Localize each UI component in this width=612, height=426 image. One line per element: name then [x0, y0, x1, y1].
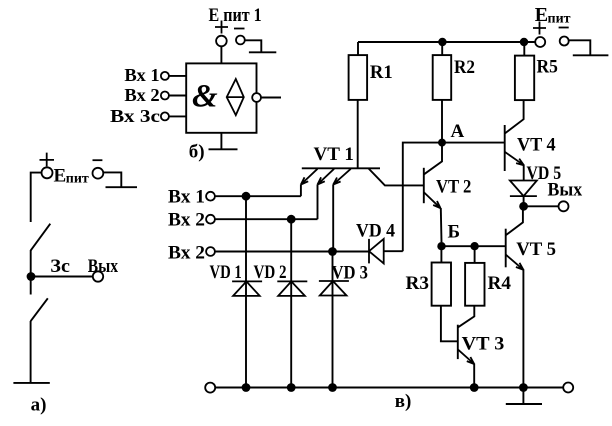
plus sign (a)	[40, 153, 55, 167]
wire R4 top lead	[474, 246, 476, 263]
wire output node to terminal	[524, 205, 559, 207]
svg-text:Е: Е	[54, 165, 67, 186]
wire node down (a)	[30, 277, 32, 295]
junction VD1 top	[242, 192, 251, 201]
plus sign (b)	[215, 21, 228, 34]
junction VD1 bottom	[242, 383, 251, 392]
svg-text:VT 5: VT 5	[516, 239, 556, 260]
VT1 emitter 3	[333, 169, 351, 185]
junction VD2 bottom	[287, 383, 296, 392]
input wire 3 (b)	[169, 115, 186, 117]
junction VT3 emitter	[470, 383, 479, 392]
ground bar (v)	[506, 403, 542, 405]
node junction (a)	[27, 272, 36, 281]
wire emitter1 down	[300, 185, 302, 197]
output node junction (v)	[519, 202, 528, 211]
terminal - circle (a)	[93, 168, 104, 179]
rail right terminal circle	[563, 383, 573, 393]
svg-text:б): б)	[189, 142, 205, 163]
wire supply to gate box	[220, 46, 222, 63]
svg-text:Вх 1: Вх 1	[124, 65, 159, 85]
svg-text:Зс: Зс	[50, 256, 70, 277]
diode VD2	[277, 219, 307, 387]
junction R4 top	[470, 242, 478, 250]
input wire Vh2 (v)	[215, 218, 318, 220]
transistor VT3	[458, 306, 475, 364]
wire R3 bottom to VT3 base	[441, 306, 458, 342]
terminal - circle (b)	[236, 36, 245, 45]
wire output node to VT5 collector	[506, 206, 523, 235]
svg-text:A: A	[451, 121, 465, 142]
input circle Vh1 (v)	[206, 192, 215, 201]
wire R2 bottom to node A	[441, 100, 443, 143]
svg-text:пит: пит	[66, 172, 89, 187]
chassis step symbol (v)	[569, 40, 609, 55]
input circle Vh2 (v)	[206, 215, 215, 224]
minus sign (a)	[93, 159, 103, 161]
minus sign (v)	[559, 27, 569, 29]
junction R5 top	[520, 38, 528, 46]
switch contact 3 blade (upper)	[31, 224, 51, 251]
input wire Vh2b to VD4	[215, 251, 369, 253]
svg-text:VT 1: VT 1	[314, 144, 354, 165]
transistor VT4 bar	[504, 125, 506, 171]
junction VD3 top	[328, 247, 337, 256]
wire from + terminal down (a)	[31, 173, 42, 222]
gate ground lead	[220, 133, 222, 150]
wire R2 top lead	[441, 42, 443, 55]
terminal + circle (b)	[216, 36, 227, 47]
svg-text:в): в)	[395, 391, 412, 412]
wire VT2 emitter to node B	[440, 208, 443, 242]
svg-text:VD 2: VD 2	[254, 262, 287, 283]
resistor R5	[515, 56, 534, 101]
terminal - circle (v)	[560, 37, 569, 46]
ground lead (v)	[522, 388, 524, 405]
wire to ground (a)	[30, 321, 32, 383]
wire emitter2 down	[317, 185, 319, 220]
resistor R4	[465, 263, 484, 306]
svg-text:а): а)	[31, 395, 47, 416]
gate box U1	[186, 63, 256, 132]
switch blade (lower)	[31, 298, 48, 321]
svg-text:пит: пит	[548, 11, 571, 26]
wire emitter3 down	[332, 185, 334, 252]
svg-text:Вх 2: Вх 2	[168, 209, 205, 230]
resistor R2	[433, 55, 452, 100]
svg-text:R1: R1	[370, 62, 393, 83]
minus sign (b)	[234, 28, 245, 30]
wire node A left and down to VD4	[403, 143, 442, 252]
svg-text:R5: R5	[537, 57, 558, 78]
resistor R3	[432, 263, 451, 306]
svg-text:R4: R4	[488, 273, 512, 294]
transistor VT1 base bar	[302, 167, 380, 169]
VT1 collector to VT2 base	[369, 169, 424, 186]
VT1 emitter 1	[301, 169, 318, 185]
diode VD4	[369, 239, 403, 264]
junction VD2 top	[287, 215, 296, 224]
gate ground bar	[209, 148, 238, 150]
chassis step symbol (b)	[245, 40, 276, 52]
wire node B to R3	[440, 246, 442, 262]
diode VD1	[232, 196, 262, 387]
node A junction	[438, 139, 446, 147]
svg-text:R3: R3	[406, 273, 430, 294]
VT1 emitter 2	[318, 169, 335, 185]
input wire Vh1 (v)	[215, 195, 301, 197]
wire VD5 to output node	[523, 196, 525, 206]
wire node B to VT5 base	[442, 245, 506, 247]
junction R2 top	[438, 38, 446, 46]
chassis step symbol (a)	[103, 172, 137, 187]
VT5 emitter	[506, 255, 523, 270]
gate output wire	[261, 97, 281, 99]
wire VT3 emitter to rail	[473, 364, 475, 388]
wire node A right to VT4 base	[442, 142, 505, 144]
svg-text:VT 3: VT 3	[462, 334, 505, 355]
transistor VT5 bar	[505, 229, 507, 268]
wire node to output circle (a)	[31, 276, 93, 278]
svg-text:VD 1: VD 1	[210, 262, 242, 283]
svg-text:VD 4: VD 4	[356, 221, 395, 242]
wire VT5 emitter to rail	[522, 269, 524, 387]
wire R1 bottom to VT1	[357, 100, 359, 168]
svg-text:Вх 2: Вх 2	[168, 243, 205, 264]
input wire 2 (b)	[169, 95, 186, 97]
plus sign (v)	[533, 22, 546, 35]
svg-text:&: &	[192, 79, 218, 115]
output terminal circle (v)	[559, 201, 569, 211]
junction ground	[519, 383, 528, 392]
VT4 emitter	[505, 152, 524, 165]
rail left terminal circle	[205, 383, 215, 393]
input circle 3 (b)	[161, 112, 169, 120]
resistor R1	[349, 55, 368, 100]
top supply rail	[358, 41, 535, 43]
wire blade to node (a)	[30, 250, 32, 277]
diode VD3	[319, 252, 349, 388]
input circle 1 (b)	[161, 72, 169, 80]
terminal + circle (a)	[42, 167, 53, 178]
wire R5 bottom to VT4	[505, 100, 524, 133]
bottom rail (v)	[216, 387, 564, 389]
input wire 1 (b)	[169, 75, 186, 77]
ground bar (a)	[13, 382, 49, 384]
output terminal circle (a)	[93, 271, 103, 281]
svg-text:R2: R2	[454, 57, 475, 78]
wire VT4 emitter to VD5	[523, 165, 525, 181]
svg-text:Вх 1: Вх 1	[168, 187, 205, 208]
input circle Vh2b (v)	[206, 247, 215, 256]
wire R5 top lead	[523, 42, 525, 56]
svg-text:Вх 3с: Вх 3с	[110, 106, 160, 126]
terminal + circle (v)	[535, 37, 545, 47]
amplifier diamond symbol	[227, 79, 244, 115]
svg-text:Б: Б	[448, 222, 461, 243]
wire rail corner to R1	[357, 42, 359, 55]
svg-text:Вх 2: Вх 2	[124, 85, 159, 105]
svg-text:Вых: Вых	[548, 180, 583, 201]
gate output inversion circle	[252, 93, 261, 102]
junction VD3 bottom	[328, 383, 337, 392]
node B junction	[437, 242, 445, 250]
svg-text:Е пит 1: Е пит 1	[209, 5, 262, 26]
diode VD5	[510, 181, 537, 197]
input circle 2 (b)	[161, 92, 169, 100]
svg-text:Е: Е	[535, 4, 548, 26]
svg-text:VT 4: VT 4	[517, 135, 556, 156]
svg-text:VT 2: VT 2	[436, 176, 471, 197]
transistor VT2	[424, 143, 442, 209]
